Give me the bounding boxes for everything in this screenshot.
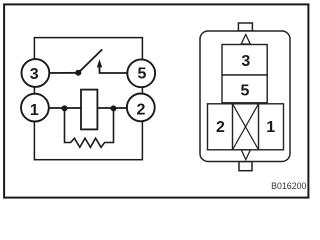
svg-text:3: 3 (241, 53, 250, 70)
svg-text:2: 2 (136, 101, 145, 118)
svg-text:2: 2 (216, 119, 225, 136)
svg-text:5: 5 (240, 83, 249, 100)
svg-text:1: 1 (266, 119, 275, 136)
svg-text:3: 3 (30, 66, 39, 83)
svg-text:5: 5 (138, 66, 147, 83)
svg-text:B016200: B016200 (271, 181, 306, 191)
svg-text:1: 1 (30, 102, 39, 119)
